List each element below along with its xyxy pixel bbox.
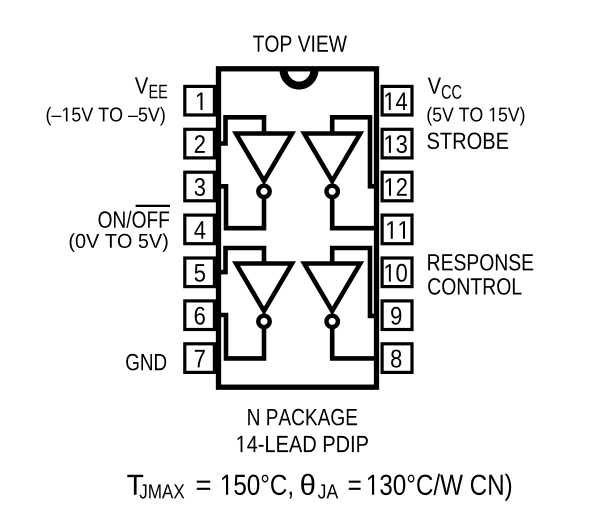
- label VEE (pin 1): [135, 77, 167, 98]
- pin 6 box: [185, 301, 215, 330]
- pin 11 box: [382, 215, 412, 244]
- comparator A4 (bottom-right): [304, 264, 360, 328]
- pin 9 box: [382, 301, 412, 330]
- label (-15V TO -5V): [47, 107, 165, 126]
- pin 3 box: [185, 172, 215, 201]
- wire A4 output bubble to pin8: [332, 323, 376, 358]
- notch (pin-1 index): [283, 69, 314, 86]
- label CONTROL (pin 10): [428, 278, 521, 295]
- wire pin5 to A3 input: [219, 248, 265, 272]
- pin 1 box: [185, 86, 215, 115]
- title TOP VIEW: [253, 35, 347, 52]
- wire pin2 to A1 input: [219, 117, 265, 143]
- caption N PACKAGE: [248, 409, 357, 426]
- wire pin3 to A1 output bubble: [219, 186, 265, 228]
- pin 5 box: [185, 258, 215, 287]
- pin 10 box: [382, 258, 412, 287]
- pin 7 box: [185, 344, 215, 373]
- comparator A3 (bottom-left): [236, 264, 292, 328]
- overline of OFF: [136, 205, 170, 207]
- wire pin6 to A3 output bubble: [219, 315, 265, 358]
- wire pin12 to A2 input: [332, 117, 376, 186]
- caption 14-LEAD PDIP: [238, 436, 368, 452]
- label ON/OFF (pin 4): [99, 211, 170, 228]
- comparator A1 (top-left): [236, 134, 292, 198]
- label VCC (pin 14): [428, 78, 462, 99]
- label GND (pin 7): [126, 354, 166, 371]
- label (0V TO 5V): [70, 233, 168, 252]
- footnote TJMAX = 150°C, θJA = 130°C/W CN): [127, 474, 511, 501]
- IC body: [219, 69, 377, 387]
- pin 2 box: [185, 129, 215, 158]
- pin 14 box: [382, 86, 412, 115]
- label (5V TO 15V): [427, 107, 524, 126]
- pin 4 box: [185, 215, 215, 244]
- wire pin9 to A4 input: [332, 248, 376, 316]
- label RESPONSE (pin 10): [428, 254, 533, 271]
- pin 13 box: [382, 129, 412, 158]
- label STROBE (pin 13): [427, 133, 508, 150]
- wire A2 output bubble to pin11: [332, 193, 376, 228]
- pin 8 box: [382, 344, 412, 373]
- comparator A2 (top-right): [304, 134, 360, 198]
- pin 12 box: [382, 172, 412, 201]
